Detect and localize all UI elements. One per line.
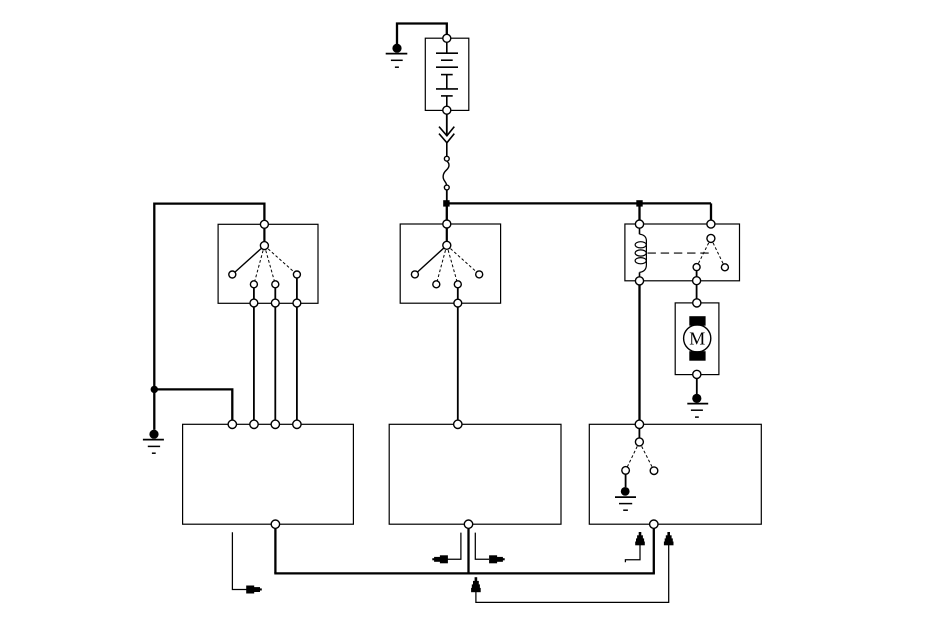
svg-text:M: M <box>689 329 705 349</box>
